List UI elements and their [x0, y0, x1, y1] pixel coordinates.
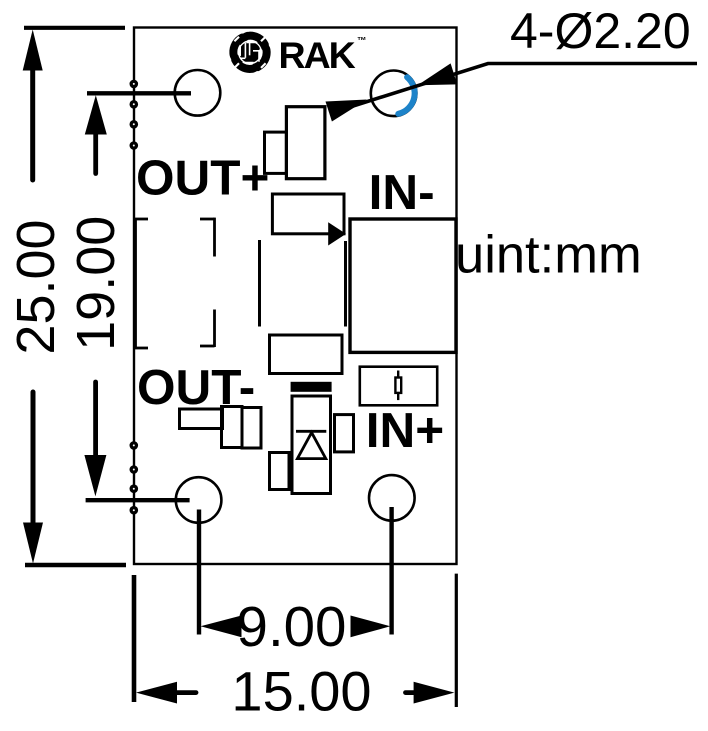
component A tall rect top: [286, 107, 325, 179]
dim 25.00 bottom arrow: [23, 523, 43, 564]
leader arrow right: [418, 63, 458, 85]
board outline: [134, 28, 457, 565]
leader 4-d2.20 polyline: [331, 64, 697, 114]
dim 9.00 left extension: [197, 510, 201, 635]
component K rect left of diode: [270, 453, 290, 490]
hole H2 top-right: [371, 71, 417, 117]
leader arrow left: [326, 100, 367, 122]
component L2 tall rect: [222, 407, 243, 448]
dim 15.00 left arrow: [136, 682, 177, 704]
dim 15.00 left extension: [132, 575, 137, 702]
component H black bar: [291, 382, 332, 392]
component E big IC: [350, 219, 456, 352]
svg-text:9.00: 9.00: [237, 595, 347, 658]
svg-text:OUT+: OUT+: [136, 151, 269, 206]
dim 15.00 right extension: [455, 574, 458, 707]
svg-text:25.00: 25.00: [6, 219, 66, 354]
dim 9.00 right extension: [389, 507, 393, 635]
dim 25.00 top extension line: [24, 26, 125, 30]
component F side lines: [258, 240, 261, 327]
hole H1 top-left: [175, 70, 221, 116]
diode symbol: [296, 431, 326, 458]
dim 15.00 right arrow: [414, 682, 455, 704]
dim 19.00 bottom arrow: [84, 455, 106, 496]
blue arc marker on hole H2: [398, 77, 414, 114]
component I diode body: [292, 396, 331, 494]
silkscreen outline N: [134, 218, 214, 349]
svg-text:™: ™: [357, 36, 367, 47]
dim 25.00 top arrow: [23, 30, 43, 71]
component C mid rect: [272, 194, 344, 234]
dim 19.00 top arrow: [85, 95, 107, 134]
svg-text:15.00: 15.00: [231, 660, 371, 723]
polarity arrow D: [328, 222, 346, 245]
svg-text:4-Ø2.20: 4-Ø2.20: [510, 3, 691, 59]
svg-text:RAK: RAK: [279, 34, 356, 76]
dim 9.00 right arrow: [351, 616, 391, 638]
svg-text:19.00: 19.00: [66, 216, 126, 351]
svg-text:uint:mm: uint:mm: [455, 226, 642, 285]
edge pad row top: [130, 80, 139, 150]
svg-text:IN+: IN+: [366, 403, 444, 458]
component M fuse box: [360, 367, 437, 406]
dim 19.00 bottom extension line: [86, 498, 190, 502]
dim 9.00 left arrow: [201, 616, 242, 638]
component L3 tall rect: [242, 408, 261, 449]
component B small rect left of A: [265, 132, 287, 173]
edge pad row bottom: [130, 441, 139, 514]
RAK logo icon: [233, 36, 266, 69]
component L1 flat rect: [180, 409, 223, 429]
dim 25.00 bottom extension line: [25, 563, 126, 567]
component J rect right of diode: [335, 415, 354, 452]
dim 19.00 top extension line: [87, 91, 191, 95]
component G rect: [270, 335, 343, 374]
hole H4 bottom-right: [369, 475, 415, 521]
hole H3 bottom-left: [176, 477, 222, 523]
svg-text:IN-: IN-: [369, 165, 435, 220]
